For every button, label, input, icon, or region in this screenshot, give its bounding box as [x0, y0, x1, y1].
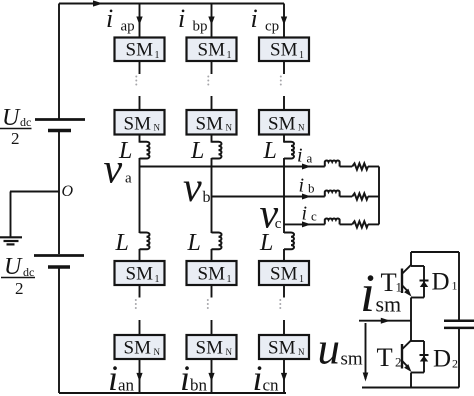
wire c to SM1 lower [283, 249, 285, 261]
inductor L upper arm b [212, 142, 222, 159]
capacitor C upper plate [444, 319, 474, 322]
svg-text:an: an [118, 376, 135, 395]
svg-text:SM: SM [268, 114, 296, 135]
label ism [360, 263, 401, 323]
label ic [302, 202, 318, 224]
svg-text:D: D [432, 269, 450, 296]
submodule SM1 upper b [187, 38, 237, 62]
wire ism input [359, 320, 411, 322]
wire a above SMN upper [139, 96, 141, 110]
submodule SMN lower b [187, 335, 237, 359]
svg-text:2: 2 [452, 357, 458, 371]
wire top dc bus [59, 3, 284, 5]
svg-text:i: i [251, 4, 258, 33]
wire SM right upper [458, 252, 460, 321]
load inductor phase a [325, 161, 340, 167]
svg-text:SM: SM [268, 338, 296, 359]
wire c above SMN upper [283, 96, 285, 110]
wire c above SMN lower [283, 320, 285, 335]
label D1 [432, 269, 458, 296]
wire b above SMN lower [211, 320, 213, 335]
load resistor phase b [352, 193, 368, 199]
svg-text:1: 1 [155, 274, 160, 285]
wire bottom dc bus [59, 392, 286, 394]
svg-text:i: i [297, 145, 303, 167]
svg-text:v: v [183, 165, 202, 211]
ground [0, 237, 22, 244]
wire SM center emitter T2 [410, 373, 412, 388]
arrow ibn [208, 373, 214, 382]
svg-text:dc: dc [20, 115, 31, 129]
svg-text:c: c [275, 216, 282, 232]
svg-text:2: 2 [395, 355, 402, 370]
label T2 [377, 342, 402, 372]
submodule SM1 upper a [115, 38, 165, 62]
dots upper b [207, 76, 209, 86]
inductor L upper arm a [140, 142, 150, 159]
submodule SMN lower c [259, 335, 309, 359]
svg-text:bn: bn [190, 376, 208, 395]
wire phase a output [140, 166, 325, 168]
label Udc/2 lower [1, 254, 35, 298]
svg-text:cp: cp [265, 19, 279, 35]
svg-text:N: N [226, 123, 233, 133]
svg-text:1: 1 [155, 50, 160, 61]
battery lower dc source negative plate [48, 265, 70, 268]
label icn [253, 358, 280, 396]
diode D2 [420, 341, 429, 373]
node va label [104, 147, 133, 193]
svg-text:1: 1 [452, 279, 458, 293]
label D2 [433, 346, 458, 373]
battery upper dc source negative plate [48, 129, 71, 132]
svg-text:N: N [298, 347, 305, 357]
wire b load mid [340, 196, 353, 198]
wire load neutral bus [378, 167, 380, 225]
wire b to SM1 lower [211, 249, 213, 261]
arrow usm voltage [363, 323, 369, 382]
inductor L lower arm c [284, 233, 294, 250]
wire b below SM1 lower [211, 285, 213, 298]
arrow ian [136, 373, 142, 382]
submodule SM1 lower a [115, 261, 165, 285]
battery lower dc source positive plate [34, 254, 84, 257]
svg-text:L: L [263, 138, 277, 164]
load resistor phase c [352, 221, 368, 227]
label icp [251, 4, 280, 35]
svg-text:i: i [299, 175, 305, 197]
svg-text:bp: bp [193, 19, 208, 35]
wire a load right [368, 166, 379, 168]
wire b below SM1 upper [211, 61, 213, 74]
wire a to SM1 lower [139, 249, 141, 261]
svg-text:2: 2 [11, 129, 20, 148]
label ia [297, 145, 313, 167]
wire SM center collector T1 [410, 252, 412, 266]
wire b above SMN upper [211, 96, 213, 110]
svg-text:N: N [154, 347, 161, 357]
wire SM right lower [458, 328, 460, 388]
svg-text:T: T [377, 342, 393, 372]
svg-text:SM: SM [270, 264, 298, 285]
svg-text:N: N [154, 123, 161, 133]
svg-text:i: i [253, 358, 263, 396]
wire b bottom [211, 359, 213, 393]
svg-text:SM: SM [270, 40, 298, 61]
dots lower b [207, 299, 209, 309]
svg-text:i: i [302, 202, 308, 224]
wire a below SM1 lower [139, 285, 141, 298]
arrow ia [302, 164, 311, 170]
label iap [106, 4, 135, 35]
label usm [318, 324, 363, 374]
submodule SM1 upper c [259, 38, 309, 62]
wire a bottom [139, 359, 141, 393]
svg-text:U: U [4, 254, 23, 280]
battery upper dc source positive plate [35, 118, 85, 121]
svg-text:SM: SM [124, 338, 152, 359]
svg-text:1: 1 [299, 274, 304, 285]
inductor L lower arm b [212, 233, 222, 250]
diode D1 [420, 266, 429, 298]
submodule SM1 lower c [259, 261, 309, 285]
label ibp [178, 4, 208, 35]
wire a mid [139, 158, 141, 233]
arrow ibp [208, 17, 214, 26]
wire c load mid [340, 223, 353, 225]
svg-text:i: i [360, 263, 375, 323]
svg-text:i: i [180, 358, 190, 396]
svg-text:b: b [203, 189, 211, 206]
wire SM center mid [410, 298, 412, 342]
wire b mid [211, 158, 213, 233]
wire a load mid [340, 166, 353, 168]
wire a above SMN lower [139, 320, 141, 335]
svg-text:c: c [311, 208, 317, 223]
node vb label [183, 165, 211, 211]
svg-text:U: U [2, 105, 21, 131]
wire left dc bus upper [58, 4, 60, 120]
svg-text:cn: cn [263, 376, 280, 395]
arrow ic [302, 221, 311, 227]
submodule SM1 lower b [187, 261, 237, 285]
svg-text:SM: SM [124, 114, 152, 135]
svg-text:2: 2 [15, 279, 24, 298]
svg-text:a: a [125, 171, 132, 187]
svg-text:SM: SM [126, 264, 154, 285]
svg-text:ap: ap [121, 19, 135, 35]
wire ground stub [10, 192, 12, 238]
svg-text:i: i [106, 4, 113, 33]
dots upper a [135, 76, 137, 86]
label ib [299, 175, 315, 197]
svg-text:v: v [104, 147, 123, 193]
svg-text:L: L [187, 230, 201, 256]
svg-text:D: D [433, 346, 451, 373]
wire c below SM1 lower [283, 285, 285, 298]
svg-text:i: i [178, 4, 185, 33]
wire c mid [283, 158, 285, 233]
wire c below SM1 upper [283, 61, 285, 74]
load resistor phase a [352, 163, 368, 169]
wire c SMN to upper inductor [283, 135, 285, 143]
load inductor phase c [325, 218, 340, 224]
arrow icn [281, 373, 287, 382]
wire left dc bus lower [58, 268, 60, 393]
submodule SMN lower a [115, 335, 165, 359]
wire phase b output [212, 196, 325, 198]
svg-text:SM: SM [196, 338, 224, 359]
svg-text:SM: SM [198, 264, 226, 285]
wire node O to ground [10, 191, 59, 193]
dots lower c [279, 299, 281, 309]
arrow ism [381, 318, 391, 324]
label ibn [180, 358, 208, 396]
svg-text:b: b [308, 181, 315, 196]
wire b load right [368, 196, 379, 198]
label ian [108, 358, 135, 396]
label T1 [381, 267, 403, 297]
svg-text:1: 1 [299, 50, 304, 61]
submodule SMN upper c [259, 110, 309, 135]
inductor L upper arm c [284, 142, 294, 159]
wire b SMN to upper inductor [211, 135, 213, 143]
wire a below SM1 upper [139, 61, 141, 74]
svg-text:sm: sm [341, 349, 363, 370]
submodule SMN upper a [115, 110, 165, 135]
node vc label [260, 192, 282, 238]
svg-text:N: N [298, 123, 305, 133]
wire left dc bus middle [58, 132, 60, 254]
svg-text:O: O [62, 183, 74, 200]
wire upper arm b [211, 4, 213, 39]
inductor L lower arm a [140, 233, 150, 250]
dots lower a [135, 299, 137, 309]
svg-text:a: a [307, 151, 313, 166]
svg-text:SM: SM [196, 114, 224, 135]
label Udc/2 upper [0, 105, 32, 148]
submodule detail: wire SM top [411, 251, 459, 253]
transistor T2 [402, 340, 424, 372]
svg-text:sm: sm [376, 292, 402, 317]
arrow top bus current direction [93, 0, 103, 6]
dots upper c [280, 76, 282, 86]
svg-text:i: i [108, 358, 118, 396]
svg-text:L: L [190, 138, 204, 164]
capacitor C lower plate [444, 327, 474, 330]
arrow icp [281, 17, 287, 26]
wire a SMN to upper inductor [139, 135, 141, 143]
transistor T1 [402, 265, 424, 298]
svg-text:1: 1 [227, 50, 232, 61]
wire upper arm c [283, 4, 285, 39]
svg-text:u: u [318, 324, 341, 374]
svg-text:SM: SM [198, 40, 226, 61]
svg-text:1: 1 [227, 274, 232, 285]
wire phase c output [284, 223, 325, 225]
wire c load right [368, 223, 379, 225]
wire SM bottom [362, 387, 459, 389]
load inductor phase b [325, 191, 340, 197]
submodule SMN upper b [187, 110, 237, 135]
wire c bottom [283, 359, 285, 393]
svg-text:N: N [226, 347, 233, 357]
arrow ib [302, 194, 311, 200]
svg-text:SM: SM [126, 40, 154, 61]
wire upper arm a [139, 4, 141, 39]
svg-text:L: L [115, 230, 129, 256]
arrow iap [136, 17, 142, 26]
